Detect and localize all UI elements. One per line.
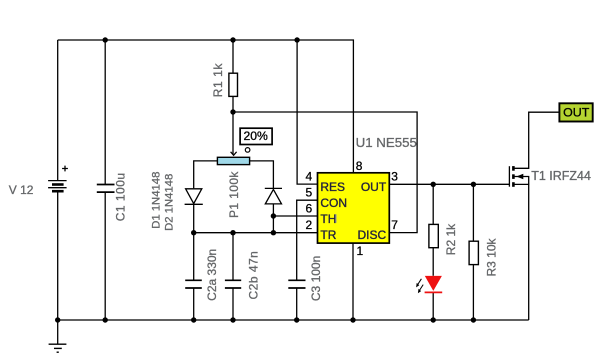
svg-text:CON: CON bbox=[320, 196, 347, 210]
svg-text:1: 1 bbox=[357, 244, 364, 258]
svg-text:DISC: DISC bbox=[358, 228, 387, 242]
svg-text:20%: 20% bbox=[243, 129, 268, 143]
svg-text:C2b 47n: C2b 47n bbox=[247, 251, 261, 300]
svg-text:V 12: V 12 bbox=[9, 183, 34, 197]
svg-text:C1 100u: C1 100u bbox=[113, 172, 127, 221]
svg-text:R1 1k: R1 1k bbox=[211, 63, 225, 98]
svg-text:P1 100k: P1 100k bbox=[227, 171, 241, 218]
svg-text:4: 4 bbox=[306, 170, 313, 184]
svg-text:6: 6 bbox=[306, 201, 313, 215]
svg-text:OUT: OUT bbox=[361, 180, 387, 194]
svg-text:3: 3 bbox=[391, 170, 398, 184]
svg-text:TH: TH bbox=[320, 212, 336, 226]
svg-text:T1 IRFZ44: T1 IRFZ44 bbox=[531, 169, 591, 183]
svg-text:C2a 330n: C2a 330n bbox=[205, 249, 219, 301]
svg-text:C3 100n: C3 100n bbox=[309, 256, 323, 301]
svg-text:D2 1N4148: D2 1N4148 bbox=[164, 174, 176, 231]
svg-text:R2 1k: R2 1k bbox=[444, 223, 458, 255]
svg-text:2: 2 bbox=[306, 218, 313, 232]
svg-text:7: 7 bbox=[391, 218, 398, 232]
svg-text:TR: TR bbox=[320, 228, 336, 242]
svg-text:8: 8 bbox=[356, 159, 363, 173]
svg-text:R3 10k: R3 10k bbox=[484, 237, 498, 276]
svg-text:D1 1N4148: D1 1N4148 bbox=[150, 172, 162, 229]
svg-text:RES: RES bbox=[320, 180, 345, 194]
svg-text:U1 NE555: U1 NE555 bbox=[356, 135, 417, 150]
svg-text:OUT: OUT bbox=[563, 105, 590, 119]
svg-text:5: 5 bbox=[306, 186, 313, 200]
